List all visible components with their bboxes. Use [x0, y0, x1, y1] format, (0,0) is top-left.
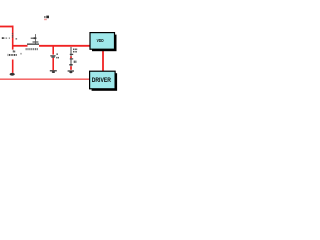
svg-text:VDD: VDD — [97, 37, 104, 43]
svg-text:DRIVER: DRIVER — [92, 77, 111, 83]
